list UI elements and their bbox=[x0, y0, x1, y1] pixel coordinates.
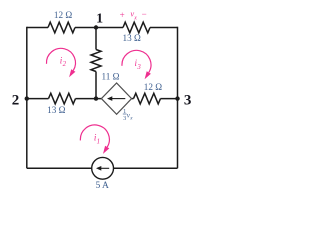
resistor R 13ohm middle bbox=[49, 93, 76, 104]
wire right edge bbox=[177, 27, 179, 169]
mesh current i2 arrow bbox=[46, 48, 75, 77]
node 1 junction dot bbox=[94, 25, 98, 29]
wire bottom-left bbox=[27, 167, 92, 169]
label vx polarity bbox=[120, 9, 147, 22]
wire source to resistor bbox=[132, 98, 134, 100]
svg-text:2: 2 bbox=[63, 61, 67, 68]
svg-text:12 Ω: 12 Ω bbox=[144, 82, 162, 92]
mesh current i3 arrow bbox=[122, 50, 151, 79]
mesh current i1 arrow bbox=[80, 125, 109, 154]
middle junction dot bbox=[94, 96, 98, 100]
wire to dependent source bbox=[76, 98, 102, 100]
wire node1 down bbox=[95, 28, 97, 50]
svg-text:1: 1 bbox=[96, 12, 103, 27]
label i2 bbox=[60, 55, 67, 68]
svg-text:12 Ω: 12 Ω bbox=[54, 10, 72, 20]
svg-text:11 Ω: 11 Ω bbox=[102, 71, 120, 81]
label 1/3 vx gain bbox=[123, 108, 133, 122]
wire to node3 bbox=[161, 98, 178, 100]
wire top-left segment bbox=[27, 27, 48, 29]
dependent current source diamond bbox=[101, 83, 131, 114]
node 2 junction dot bbox=[25, 96, 29, 100]
current source 5A bbox=[92, 157, 114, 179]
svg-text:1: 1 bbox=[97, 138, 100, 145]
label i3 bbox=[135, 58, 142, 71]
svg-text:−: − bbox=[142, 9, 147, 19]
svg-text:x: x bbox=[133, 15, 137, 21]
wire top-right segment bbox=[150, 27, 178, 29]
resistor R 13ohm top bbox=[123, 22, 150, 33]
resistor R 12ohm middle bbox=[134, 93, 161, 104]
svg-text:5 A: 5 A bbox=[95, 181, 109, 191]
svg-text:13 Ω: 13 Ω bbox=[47, 105, 65, 115]
svg-text:3: 3 bbox=[184, 93, 192, 109]
svg-text:3: 3 bbox=[123, 115, 126, 122]
wire bottom-right bbox=[113, 167, 177, 169]
wire left edge bbox=[26, 27, 28, 169]
node 3 junction dot bbox=[175, 96, 179, 100]
label i1 bbox=[94, 133, 100, 146]
wire to middle junction bbox=[95, 72, 97, 99]
wire node1 top bbox=[75, 27, 123, 29]
resistor R 12ohm top bbox=[48, 22, 75, 33]
svg-text:+: + bbox=[120, 10, 125, 20]
svg-text:3: 3 bbox=[136, 64, 141, 71]
svg-text:2: 2 bbox=[12, 93, 20, 109]
resistor R 11ohm vertical bbox=[91, 50, 101, 72]
wire node2 right bbox=[27, 98, 49, 100]
svg-text:13 Ω: 13 Ω bbox=[123, 33, 141, 43]
